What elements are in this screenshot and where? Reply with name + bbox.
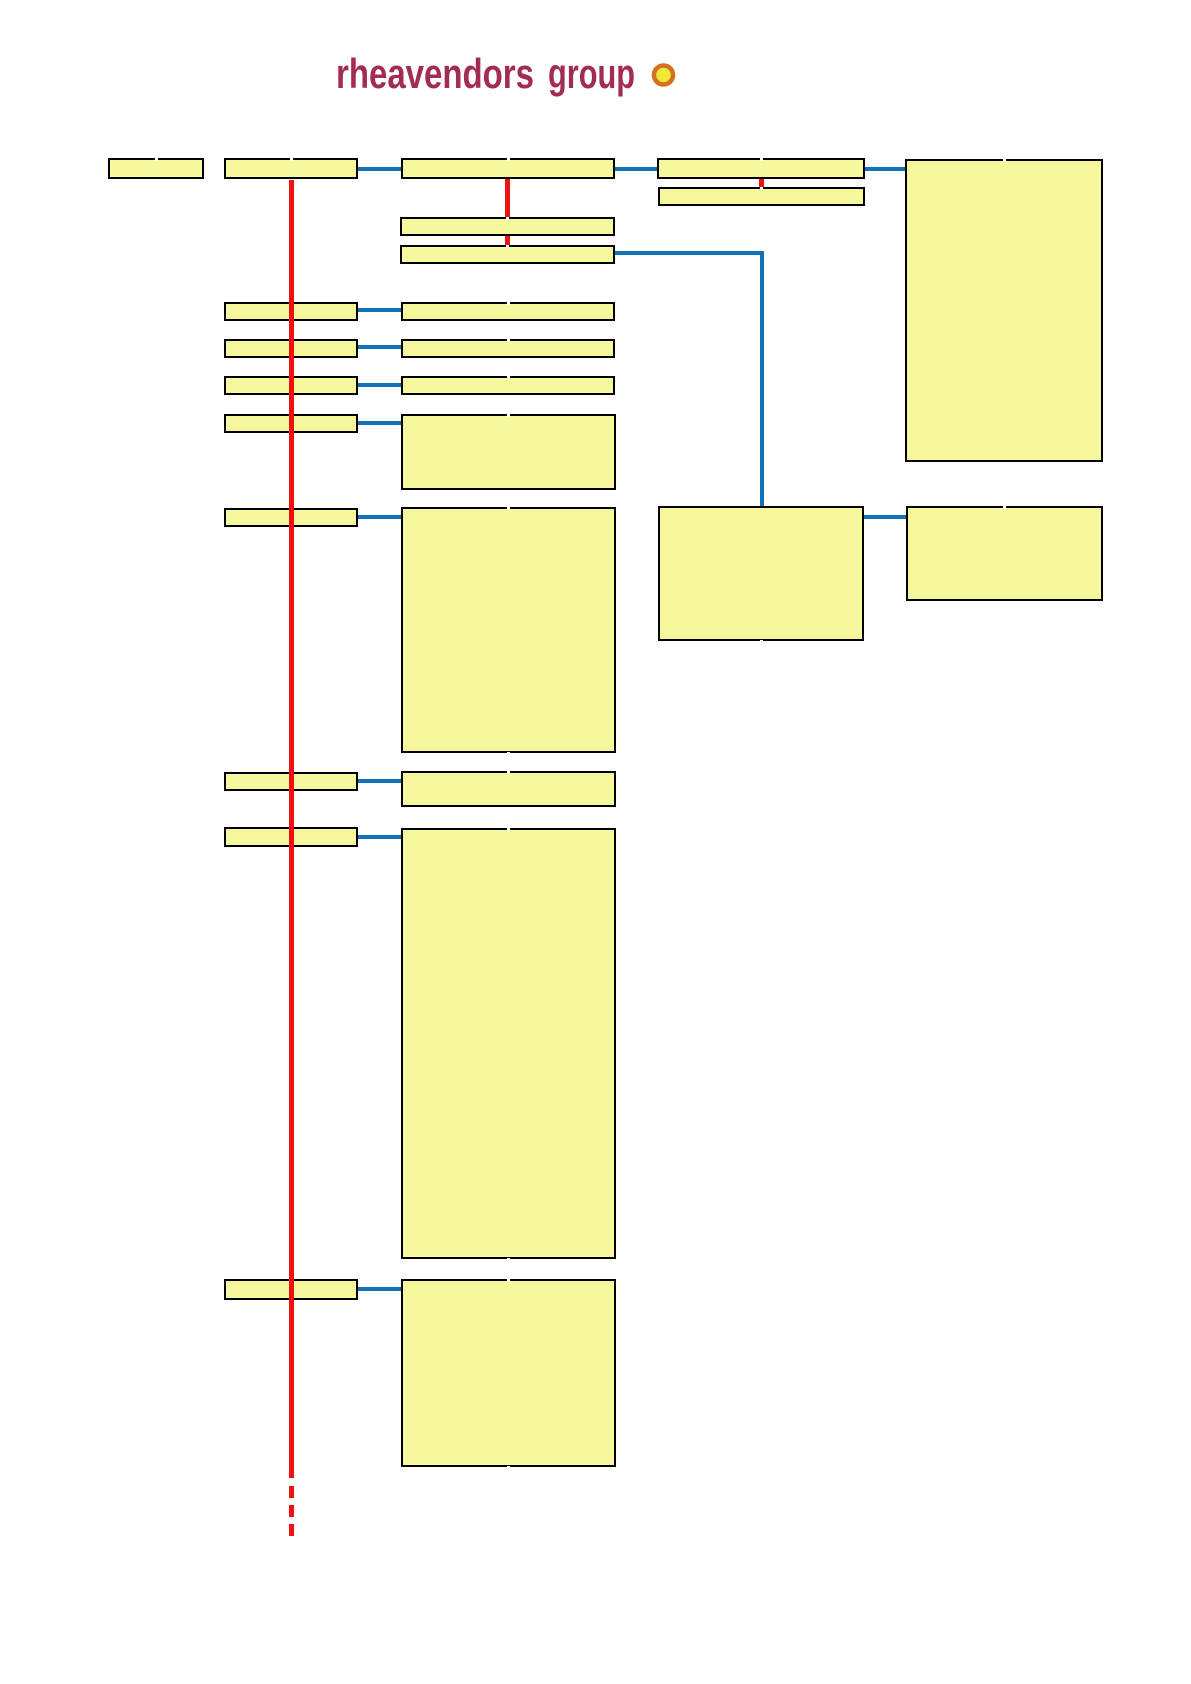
svg-text:rheavendors: rheavendors <box>336 50 534 97</box>
svg-text:group: group <box>548 50 635 97</box>
